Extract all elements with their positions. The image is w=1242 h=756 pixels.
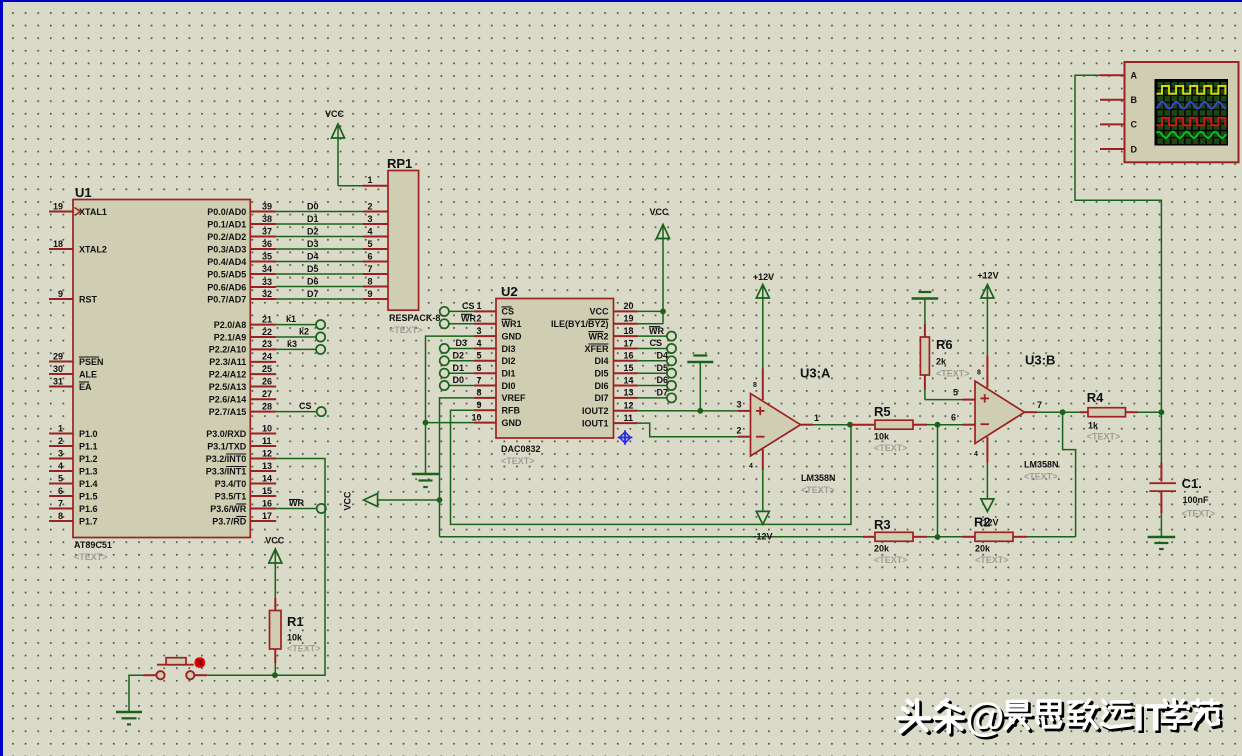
resistor R1 10k [270, 598, 321, 675]
node D5 terminal (U2 right) [638, 363, 676, 378]
ground (inverted, above R6) [912, 292, 939, 324]
svg-text:<TEXT>: <TEXT> [1024, 472, 1058, 482]
svg-text:D7: D7 [657, 388, 669, 398]
svg-text:U1: U1 [75, 185, 92, 200]
svg-text:<TEXT>: <TEXT> [74, 552, 108, 562]
svg-text:P3.3/INT1: P3.3/INT1 [206, 466, 247, 476]
svg-text:DI4: DI4 [594, 356, 608, 366]
wire junction to U3:B pin 6 [938, 413, 976, 425]
svg-text:<TEXT>: <TEXT> [1182, 509, 1216, 519]
svg-text:P3.4/T0: P3.4/T0 [215, 479, 247, 489]
U1 XTAL1 clock chevron [75, 208, 81, 216]
svg-text:PSEN: PSEN [79, 357, 104, 367]
wire D1 from U1 P0.1 to RP1 pin 3 [276, 214, 388, 224]
ground (below C1) [1148, 537, 1176, 549]
U2 pin 20 VCC [589, 301, 637, 317]
svg-text:5: 5 [953, 388, 958, 398]
svg-text:4: 4 [749, 463, 753, 470]
node CS terminal (P2.7) [276, 401, 326, 416]
svg-text:24: 24 [262, 352, 272, 362]
wire R4 node to oscilloscope channel A [1075, 75, 1161, 412]
oscilloscope screen [1155, 79, 1229, 146]
svg-text:R3: R3 [874, 517, 891, 532]
U1 pin 21 P2.0/A8 [214, 314, 276, 330]
svg-text:P2.5/A13: P2.5/A13 [209, 382, 247, 392]
svg-text:D4: D4 [657, 351, 669, 361]
svg-text:36: 36 [262, 239, 272, 249]
U2 pin 16 DI4 [594, 351, 637, 367]
wire U2 pin 3 GND [426, 336, 474, 474]
U1 pin 24 P2.3/A11 [209, 352, 276, 368]
junction R4 / C1 / scope [1159, 409, 1165, 415]
U1 pin 35 P0.4/AD4 [207, 251, 276, 267]
power +12V arrow (U3:B pin 8) [977, 271, 998, 388]
resistor R6 2k (vertical) [920, 324, 969, 400]
svg-text:6: 6 [367, 251, 372, 261]
svg-text:20: 20 [624, 301, 634, 311]
resistor R3 20k [863, 517, 938, 565]
svg-text:+12V: +12V [753, 272, 774, 282]
wire -12V rail [440, 536, 864, 538]
wire U2 pin12 IOUT2 to U3:A pin 3 [638, 400, 751, 411]
svg-text:RESPACK-8: RESPACK-8 [389, 313, 440, 323]
svg-text:D0: D0 [307, 201, 319, 211]
svg-text:12: 12 [262, 448, 272, 458]
svg-text:12: 12 [624, 401, 634, 411]
svg-text:3: 3 [367, 214, 372, 224]
svg-text:P2.0/A8: P2.0/A8 [214, 320, 247, 330]
U1 pin 37 P0.2/AD2 [207, 226, 276, 242]
svg-text:5: 5 [367, 239, 372, 249]
U1 pin 32 P0.7/AD7 [207, 289, 276, 305]
junction VCC/pin20 [660, 309, 666, 315]
U2 pin 10 GND [471, 412, 522, 428]
svg-text:10: 10 [262, 423, 272, 433]
blue origin marker [618, 430, 633, 445]
svg-text:7: 7 [367, 264, 372, 274]
svg-text:XTAL1: XTAL1 [79, 207, 107, 217]
svg-text:<TEXT>: <TEXT> [874, 555, 908, 565]
node D4 terminal (U2 right) [638, 351, 676, 366]
svg-text:WR: WR [461, 314, 476, 324]
U1 pin 38 P0.1/AD1 [207, 214, 276, 230]
svg-text:9: 9 [58, 289, 63, 299]
svg-text:26: 26 [262, 376, 272, 386]
svg-text:RP1: RP1 [387, 156, 412, 171]
svg-text:P2.2/A10: P2.2/A10 [209, 345, 247, 355]
svg-text:20k: 20k [975, 544, 991, 554]
svg-text:P0.1/AD1: P0.1/AD1 [207, 219, 246, 229]
U1 pin 15 P3.5/T1 [215, 486, 276, 502]
svg-text:VCC: VCC [265, 536, 285, 546]
push button [144, 657, 275, 679]
oscilloscope channel A pin [1100, 71, 1138, 81]
svg-text:7: 7 [58, 498, 63, 508]
svg-text:P2.1/A9: P2.1/A9 [214, 332, 247, 342]
svg-text:1: 1 [476, 301, 481, 311]
wire U2 pin 8 VREF down-left [440, 398, 474, 537]
svg-text:CS: CS [299, 401, 312, 411]
svg-text:IT: IT [1134, 698, 1168, 740]
U1 pin 27 P2.6/A14 [209, 389, 276, 405]
svg-text:P3.5/T1: P3.5/T1 [215, 491, 247, 501]
oscilloscope channel C pin [1100, 120, 1138, 130]
svg-text:DAC0832: DAC0832 [501, 444, 541, 454]
svg-text:1k: 1k [1088, 421, 1099, 431]
svg-text:32: 32 [262, 289, 272, 299]
U1 pin 22 P2.1/A9 [214, 327, 276, 343]
svg-text:XTAL2: XTAL2 [79, 244, 107, 254]
svg-text:GND: GND [502, 331, 523, 341]
svg-text:U2: U2 [501, 284, 518, 299]
node D2 terminal (U2 left) [440, 351, 474, 366]
power VCC arrow (R1 top) [265, 536, 285, 599]
node CS terminal (U2 right) [638, 338, 676, 353]
svg-text:D6: D6 [657, 375, 669, 385]
node D0 terminal (U2 left) [440, 375, 474, 390]
svg-text:19: 19 [624, 314, 634, 324]
U1 pin 2 P1.1 [49, 436, 98, 452]
junction U3:A out / R5 / feedback [847, 422, 853, 428]
svg-text:D3: D3 [456, 338, 468, 348]
svg-text:1: 1 [814, 413, 819, 423]
svg-text:6: 6 [58, 486, 63, 496]
svg-text:6: 6 [951, 413, 956, 423]
junction R3/R2/U3B pin6 [935, 534, 941, 540]
svg-text:100nF: 100nF [1183, 495, 1210, 505]
wire U2 pin11 IOUT1 to U3:A pin 2 [638, 423, 751, 437]
oscilloscope channel D pin [1100, 144, 1138, 154]
svg-text:P1.3: P1.3 [79, 466, 98, 476]
svg-text:k2: k2 [299, 327, 309, 337]
svg-text:11: 11 [262, 436, 272, 446]
U1 pin 28 P2.7/A15 [209, 401, 276, 417]
svg-text:CS: CS [502, 307, 515, 317]
svg-text:LM358N: LM358N [1024, 460, 1059, 470]
U1 pin 11 P3.1/TXD [207, 436, 276, 452]
U1 pin 29 PSEN [49, 351, 104, 367]
wire U2 pin 20 to VCC [638, 310, 663, 312]
svg-text:3: 3 [58, 448, 63, 458]
node CS terminal (U2 left) [440, 301, 475, 316]
wire R3-R2 node up to U3:B pin 6 [937, 425, 939, 537]
watermark 头条 @灵思致远IT学苑 [898, 696, 1221, 742]
U1 pin 23 P2.2/A10 [209, 339, 276, 355]
U1 pin 5 P1.4 [49, 473, 98, 489]
svg-text:38: 38 [262, 214, 272, 224]
wire D2 from U1 P0.2 to RP1 pin 4 [276, 226, 388, 236]
svg-text:XFER: XFER [584, 344, 609, 354]
wire D5 from U1 P0.5 to RP1 pin 7 [276, 264, 388, 274]
U2 pin 8 VREF [474, 388, 526, 404]
svg-text:30: 30 [53, 364, 63, 374]
svg-text:P0.3/AD3: P0.3/AD3 [207, 244, 246, 254]
wire U2 pin 19 to VCC [638, 323, 663, 325]
svg-text:@: @ [966, 696, 1005, 740]
U1 pin 7 P1.6 [49, 498, 98, 514]
svg-text:13: 13 [624, 388, 634, 398]
wire U2 pin 10 GND [426, 422, 474, 424]
svg-text:P2.3/A11: P2.3/A11 [209, 357, 246, 367]
U1 pin 30 ALE [49, 364, 97, 380]
wire D4 from U1 P0.4 to RP1 pin 6 [276, 251, 388, 261]
svg-text:P1.2: P1.2 [79, 454, 98, 464]
svg-text:P2.7/A15: P2.7/A15 [209, 407, 247, 417]
svg-text:7: 7 [476, 375, 481, 385]
U1 pin 13 P3.3/INT1 [206, 461, 276, 477]
svg-text:2: 2 [58, 436, 63, 446]
U1 pin 39 P0.0/AD0 [207, 201, 276, 217]
svg-text:P3.6/WR: P3.6/WR [210, 504, 247, 514]
svg-text:D0: D0 [453, 375, 465, 385]
svg-text:28: 28 [262, 401, 272, 411]
power VCC arrow (U2 pin 20/19) [649, 207, 669, 324]
svg-text:DI1: DI1 [502, 369, 516, 379]
U2 pin 13 DI7 [594, 388, 637, 404]
oscilloscope trace C (red square) [1157, 118, 1227, 125]
svg-text:P1.7: P1.7 [79, 516, 98, 526]
svg-text:23: 23 [262, 339, 272, 349]
svg-text:39: 39 [262, 201, 272, 211]
U2 pin 12 IOUT2 [582, 401, 638, 417]
svg-text:<TEXT>: <TEXT> [801, 485, 835, 495]
svg-text:10k: 10k [874, 432, 890, 442]
svg-text:D: D [1131, 144, 1138, 154]
svg-text:4: 4 [476, 338, 481, 348]
ground (inverted, at IOUT2) [687, 356, 713, 411]
svg-text:ILE(BY1/BY2): ILE(BY1/BY2) [551, 319, 609, 329]
junction R1 / button / P3.2 [272, 672, 278, 678]
svg-text:B: B [1131, 95, 1138, 105]
svg-text:C1.: C1. [1182, 476, 1202, 491]
svg-text:DI2: DI2 [502, 356, 516, 366]
svg-text:3: 3 [736, 400, 741, 410]
svg-text:CS: CS [462, 301, 475, 311]
svg-text:R6: R6 [936, 337, 953, 352]
wire D3 from U1 P0.3 to RP1 pin 5 [276, 239, 388, 249]
svg-text:35: 35 [262, 251, 272, 261]
svg-text:VREF: VREF [502, 393, 527, 403]
junction R5 / U3:B pin 6 / R3R2 [935, 422, 941, 428]
U1 pin 26 P2.5/A13 [209, 376, 276, 392]
svg-text:DI5: DI5 [594, 369, 608, 379]
U2 pin 14 DI6 [594, 375, 637, 391]
svg-text:P2.6/A14: P2.6/A14 [209, 395, 247, 405]
U2 pin 5 DI2 [474, 351, 516, 367]
svg-text:25: 25 [262, 364, 272, 374]
svg-text:P1.4: P1.4 [79, 479, 98, 489]
wire D6 from U1 P0.6 to RP1 pin 8 [276, 276, 388, 286]
node D1 terminal (U2 left) [440, 363, 474, 378]
node WR terminal (P3.6) [276, 498, 326, 513]
svg-text:4: 4 [58, 461, 63, 471]
svg-text:18: 18 [53, 239, 63, 249]
wire P3.2/INT0 to R1-button node [275, 459, 325, 676]
wire R2 feedback to U3:B output [1063, 412, 1076, 537]
svg-text:17: 17 [624, 338, 634, 348]
U2 pin 6 DI1 [474, 363, 516, 379]
svg-text:2: 2 [367, 201, 372, 211]
node k2 terminal [276, 327, 325, 342]
svg-text:k3: k3 [287, 339, 297, 349]
svg-text:3: 3 [476, 326, 481, 336]
svg-text:<TEXT>: <TEXT> [874, 443, 908, 453]
svg-text:1: 1 [58, 423, 63, 433]
junction VREF/VCC [437, 497, 443, 503]
node WR terminal (U2 right) [638, 326, 676, 341]
U1 pin 1 P1.0 [49, 423, 98, 439]
power VCC arrow (horizontal, left-pointing) [343, 491, 440, 511]
svg-text:-12V: -12V [979, 518, 998, 528]
svg-text:WR2: WR2 [589, 331, 609, 341]
svg-text:34: 34 [262, 264, 272, 274]
svg-text:IOUT2: IOUT2 [582, 406, 609, 416]
svg-text:D7: D7 [307, 289, 319, 299]
svg-text:9: 9 [476, 400, 481, 410]
U2 pin 2 WR1 [474, 314, 522, 330]
svg-text:10k: 10k [287, 633, 303, 643]
svg-text:9: 9 [367, 289, 372, 299]
power +12V arrow (U3:A pin 8) [753, 272, 774, 400]
U1 pin 3 P1.2 [49, 448, 98, 464]
U1 pin 14 P3.4/T0 [215, 473, 276, 489]
junction GND wires [423, 420, 429, 426]
U2 pin 7 DI0 [474, 375, 516, 391]
svg-text:VCC: VCC [325, 109, 345, 119]
svg-text:ALE: ALE [79, 369, 97, 379]
svg-text:CS: CS [650, 338, 663, 348]
svg-text:VCC: VCC [343, 491, 353, 511]
power -12V arrow (U3:A pin 4) [756, 449, 769, 524]
svg-text:27: 27 [262, 389, 272, 399]
oscilloscope trace D (green sine) [1157, 132, 1227, 138]
svg-text:14: 14 [262, 473, 272, 483]
svg-text:-12V: -12V [753, 532, 772, 542]
svg-text:P1.5: P1.5 [79, 491, 98, 501]
svg-text:k1: k1 [286, 314, 296, 324]
svg-text:20k: 20k [874, 544, 890, 554]
wire R6 to U3:B pin 5 [925, 388, 975, 400]
U2 pin 18 WR2 [588, 326, 638, 342]
oscilloscope channel B pin [1100, 95, 1138, 105]
svg-text:2: 2 [736, 426, 741, 436]
svg-text:RFB: RFB [502, 406, 521, 416]
wire D0 from U1 P0.0 to RP1 pin 2 [276, 201, 388, 211]
svg-text:P0.0/AD0: P0.0/AD0 [207, 207, 246, 217]
U1 pin 8 P1.7 [49, 511, 98, 527]
capacitor C1 100nF [1149, 412, 1215, 537]
svg-text:P0.2/AD2: P0.2/AD2 [207, 232, 246, 242]
U2 pin 1 CS [474, 301, 514, 317]
svg-text:D4: D4 [307, 251, 319, 261]
U2 pin 3 GND [474, 326, 522, 342]
svg-text:D3: D3 [307, 239, 319, 249]
svg-text:2: 2 [476, 314, 481, 324]
wire U3:B output pin 7 [1025, 400, 1063, 412]
IC U1 AT89C51 microcontroller [73, 185, 250, 562]
svg-text:15: 15 [262, 486, 272, 496]
svg-text:<TEXT>: <TEXT> [975, 555, 1009, 565]
svg-text:16: 16 [262, 498, 272, 508]
svg-text:31: 31 [53, 376, 63, 386]
junction U3:B out / R4 / feedback [1060, 409, 1066, 415]
U1 pin 34 P0.5/AD5 [207, 264, 276, 280]
resistor R4 1k [1063, 390, 1162, 442]
svg-text:D5: D5 [657, 363, 669, 373]
svg-text:21: 21 [262, 314, 272, 324]
U1 pin 12 P3.2/INT0 [206, 448, 276, 464]
svg-text:22: 22 [262, 327, 272, 337]
svg-text:15: 15 [624, 363, 634, 373]
op-amp U3:A LM358N [749, 366, 836, 496]
svg-text:13: 13 [262, 461, 272, 471]
svg-text:<TEXT>: <TEXT> [936, 369, 970, 379]
svg-text:P1.1: P1.1 [79, 441, 98, 451]
power VCC arrow (RP1 pin 1) [325, 109, 363, 186]
IC U2 DAC0832 [496, 284, 614, 466]
svg-text:R1: R1 [287, 614, 304, 629]
svg-text:+12V: +12V [977, 271, 998, 281]
svg-text:DI7: DI7 [594, 393, 608, 403]
resistor R2 20k [938, 515, 1076, 566]
svg-text:DI3: DI3 [502, 344, 516, 354]
wire U3:A output pin 1 [801, 413, 851, 425]
svg-text:P1.0: P1.0 [79, 429, 98, 439]
U2 pin 19 ILE(BY1/BY2) [551, 314, 638, 330]
RP1 pin 1 [363, 175, 388, 186]
svg-text:GND: GND [502, 418, 523, 428]
svg-text:5: 5 [58, 473, 63, 483]
U1 pin 36 P0.3/AD3 [207, 239, 276, 255]
svg-text:U3:B: U3:B [1025, 353, 1055, 368]
node D7 terminal (U2 right) [638, 388, 676, 403]
U2 pin 15 DI5 [594, 363, 637, 379]
svg-text:1: 1 [367, 175, 372, 185]
svg-text:P3.1/TXD: P3.1/TXD [207, 441, 247, 451]
svg-text:D2: D2 [453, 351, 465, 361]
svg-text:14: 14 [624, 375, 634, 385]
svg-text:10: 10 [471, 412, 481, 422]
U1 pin 10 P3.0/RXD [206, 423, 276, 439]
svg-text:8: 8 [58, 511, 63, 521]
svg-text:P3.7/RD: P3.7/RD [212, 516, 247, 526]
svg-text:7: 7 [1037, 400, 1042, 410]
svg-text:8: 8 [753, 382, 757, 389]
svg-text:P3.2/INT0: P3.2/INT0 [206, 454, 247, 464]
resistor R5 10k [850, 404, 938, 453]
svg-text:29: 29 [53, 351, 63, 361]
U1 pin 16 P3.6/WR [210, 498, 276, 514]
ground (below U2) [412, 474, 439, 487]
svg-text:5: 5 [476, 351, 481, 361]
U1 pin 31 EA [49, 376, 92, 392]
svg-text:EA: EA [79, 382, 92, 392]
U1 pin 33 P0.6/AD6 [207, 277, 276, 293]
oscilloscope trace A (yellow square) [1157, 86, 1227, 94]
svg-text:8: 8 [367, 276, 372, 286]
U1 pin 17 P3.7/RD [212, 511, 276, 527]
svg-text:19: 19 [53, 201, 63, 211]
power -12V arrow (U3:B pin 4) [979, 437, 998, 528]
svg-text:11: 11 [624, 413, 634, 423]
svg-text:<TEXT>: <TEXT> [501, 456, 535, 466]
svg-text:D6: D6 [307, 276, 319, 286]
U1 pin 4 P1.3 [49, 461, 98, 477]
svg-text:8: 8 [476, 388, 481, 398]
svg-text:<TEXT>: <TEXT> [389, 325, 423, 335]
svg-text:A: A [1131, 71, 1138, 81]
svg-text:P0.4/AD4: P0.4/AD4 [207, 257, 246, 267]
